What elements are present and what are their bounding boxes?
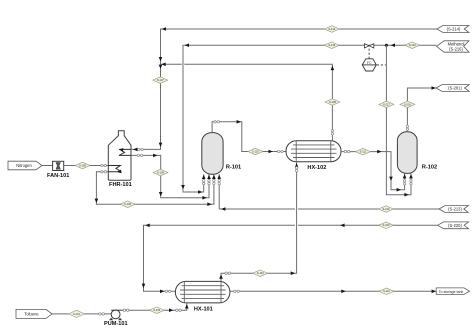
FHR bottom coil (zigzag) [108, 166, 121, 174]
wire HX-101 top outlet to HX-102 bottom inlet [219, 162, 298, 282]
svg-text:S-220: S-220 [383, 223, 390, 227]
off-page tag (S-213) [439, 206, 468, 213]
svg-text:S-112: S-112 [383, 289, 390, 293]
heat exchanger HX-102 [286, 141, 341, 171]
junction dot methanol split [385, 44, 388, 47]
svg-text:S-217: S-217 [383, 102, 390, 106]
svg-text:S-213: S-213 [383, 207, 390, 211]
svg-text:S-106: S-106 [124, 202, 131, 206]
svg-text:S-109: S-109 [157, 170, 164, 174]
svg-text:(S-213): (S-213) [448, 207, 462, 212]
control valve on methanol line [364, 44, 373, 48]
R-101 bottom port stubs with arrows and port circles [202, 174, 221, 192]
svg-text:To storage tank: To storage tank [439, 290, 464, 294]
stream label S-215 [324, 42, 339, 49]
wire HX-102 top outlet to junction [161, 63, 335, 141]
input tag Toluene [16, 309, 52, 318]
wire Methanol feed to R-101 port1 [181, 43, 436, 193]
wire PUM-101 discharge to HX-101 bottom [123, 303, 189, 312]
control signal FC to stream (dashed) [377, 64, 386, 66]
wire R-102 top outlet to (S-201) [406, 86, 436, 132]
svg-text:S-111: S-111 [360, 150, 367, 154]
stream label S-214a [324, 26, 339, 33]
svg-text:S-110: S-110 [252, 149, 259, 153]
svg-text:FHR-101: FHR-101 [109, 182, 132, 188]
stream label S-101 [69, 310, 85, 317]
stream label S-104 [253, 270, 268, 277]
wire recycle S-213 to R-101 port4 [219, 192, 439, 211]
reactor R-102 [397, 132, 437, 174]
wire FAN-101 to FHR-101 bottom coil inlet [64, 164, 109, 166]
FHR top coil (zigzag) [119, 148, 131, 155]
R-102 bottom port stubs with arrows and port circles [403, 173, 413, 185]
svg-text:S-107: S-107 [157, 78, 164, 82]
wire R-101 top outlet to HX-102 [212, 120, 286, 153]
controller FC instrument hexagon [362, 59, 376, 71]
control signal valve to FC (dashed) [368, 49, 370, 59]
svg-text:S-216: S-216 [409, 43, 416, 47]
wire FHR top coil outlet to R-101 port2 [131, 154, 209, 200]
svg-text:PUM-101: PUM-101 [104, 321, 128, 327]
svg-text:S-101: S-101 [73, 312, 80, 316]
stream label S-111 [355, 148, 370, 155]
input tag Nitrogen [8, 161, 42, 170]
stream label S-105 [75, 162, 90, 169]
svg-text:R-101: R-101 [226, 164, 241, 170]
stream label S-216 [405, 42, 420, 49]
wire Toluene to PUM-101 [52, 313, 111, 315]
svg-text:HX-102: HX-102 [307, 165, 326, 171]
reactor R-101 [202, 133, 241, 175]
svg-text:(S-214): (S-214) [447, 27, 461, 32]
svg-text:S-215: S-215 [328, 43, 335, 47]
stream label S-109 [153, 169, 168, 176]
stream label S-106 [120, 201, 135, 208]
pump PUM-101 [104, 310, 128, 327]
svg-text:S-104: S-104 [257, 271, 264, 275]
stream label S-201a [400, 101, 415, 108]
stream label S-220a [379, 222, 394, 229]
output tag To storage tank [436, 288, 469, 295]
wire recycle S-220 to HX-101 inlet [142, 224, 438, 294]
svg-text:S-105: S-105 [79, 163, 86, 167]
heat exchanger HX-101 [175, 281, 230, 312]
off-page tag (S-214) [437, 26, 469, 33]
svg-text:R-102: R-102 [422, 164, 437, 170]
svg-text:S-108: S-108 [329, 100, 336, 104]
svg-text:S-201: S-201 [404, 102, 411, 106]
input tag Methanol (S-216) [437, 41, 469, 52]
wire HX-102 outlet to R-102 port1 [341, 150, 405, 192]
svg-text:FAN-101: FAN-101 [47, 173, 69, 179]
wire HX-101 outlet to storage [230, 290, 436, 294]
stream label S-102 [149, 307, 164, 314]
stream label S-108 [325, 99, 340, 106]
wire methanol branch down to R-102 port2 [386, 45, 411, 196]
svg-text:(S-216): (S-216) [449, 47, 463, 52]
svg-text:S-102: S-102 [153, 308, 160, 312]
wire FHR bottom coil outlet to R-101 port3 (via left drop) [95, 171, 214, 206]
stream label S-213a [379, 206, 394, 213]
fired heater FHR-101 [108, 131, 131, 188]
svg-text:Nitrogen: Nitrogen [16, 163, 32, 168]
wire recycle S-214 header down to FHR top coil [131, 27, 437, 151]
stream label S-112 [379, 288, 394, 295]
fan FAN-101 [47, 161, 69, 179]
svg-text:S-214: S-214 [328, 27, 335, 31]
stream label S-110 [248, 148, 263, 155]
svg-text:(S-201): (S-201) [448, 86, 462, 91]
svg-text:(S-220): (S-220) [448, 223, 462, 228]
svg-text:HX-101: HX-101 [194, 307, 213, 313]
stream label S-217 [379, 101, 394, 108]
off-page tag (S-220) [438, 222, 469, 229]
stream label S-107 [153, 77, 168, 84]
svg-text:Toluene: Toluene [24, 311, 39, 316]
off-page tag (S-201) [436, 85, 469, 92]
wire Nitrogen to FAN-101 [42, 165, 53, 167]
svg-text:FC: FC [367, 61, 372, 65]
